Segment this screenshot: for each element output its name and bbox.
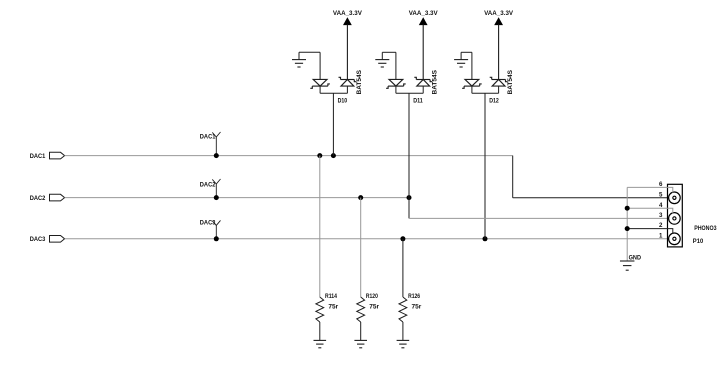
wire ground to D11 anode (horiz) <box>382 51 396 53</box>
wire ground stub D10 <box>298 52 300 59</box>
schottky diode D12A (to ground) <box>462 79 482 88</box>
ground symbol at D12 <box>454 60 468 67</box>
svg-text:GND: GND <box>629 254 642 261</box>
wire D11 left diode to rail <box>395 86 397 93</box>
wire D12 rail to signal <box>484 93 486 239</box>
wire net DAC3 <box>65 238 675 240</box>
resistor R120 75r <box>357 297 365 322</box>
ground symbol under R126 <box>397 340 410 347</box>
testpoint DAC3 stem <box>215 225 217 238</box>
port DAC2 <box>50 194 65 201</box>
phono jack circle 1 <box>669 192 681 204</box>
svg-text:BAT54S: BAT54S <box>432 69 439 94</box>
wire DAC1 jog down <box>512 156 514 198</box>
svg-text:75r: 75r <box>328 303 338 310</box>
connector P10 body <box>668 184 683 247</box>
svg-text:75r: 75r <box>412 303 422 310</box>
svg-text:DAC3: DAC3 <box>200 220 216 227</box>
svg-text:3: 3 <box>659 212 663 219</box>
junction DAC2 testpoint <box>214 195 219 200</box>
svg-text:R114: R114 <box>325 293 337 300</box>
wire signal to R126 <box>402 239 404 297</box>
wire VAA to D11 cathode <box>422 25 424 80</box>
wire ground to D10 anode (horiz) <box>299 51 320 53</box>
wire DAC2 to P10 pin3 <box>409 217 674 219</box>
wire D11 right diode to rail <box>422 86 424 93</box>
wire ground stub D12 <box>460 52 462 59</box>
resistor R114 75r <box>316 297 324 322</box>
junction DAC1 testpoint <box>214 153 219 158</box>
svg-text:VAA_3.3V: VAA_3.3V <box>409 10 439 17</box>
svg-text:D10: D10 <box>338 98 348 105</box>
wire VAA to D10 cathode <box>346 25 348 80</box>
svg-text:DAC1: DAC1 <box>30 153 46 160</box>
wire pin4 from ground bus <box>627 207 667 209</box>
wire DAC2 jog down <box>408 198 410 219</box>
svg-text:R120: R120 <box>366 293 378 300</box>
wire ground to D10 left diode top <box>319 52 321 79</box>
junction DAC1 diode clamp tap <box>331 153 336 158</box>
wire D12 right diode to rail <box>498 86 500 93</box>
wire D12 common rail <box>472 92 499 94</box>
wire D10 right diode to rail <box>346 86 348 93</box>
svg-text:BAT54S: BAT54S <box>356 69 363 94</box>
svg-text:D11: D11 <box>413 98 423 105</box>
wire D10 left diode to rail <box>319 86 321 93</box>
schottky diode D10A (to ground) <box>310 79 330 88</box>
junction DAC3 diode clamp tap <box>483 236 488 241</box>
svg-text:DAC3: DAC3 <box>30 236 46 243</box>
testpoint DAC3 arms <box>212 220 220 225</box>
svg-text:75r: 75r <box>369 303 379 310</box>
schottky diode D10B (to VAA) <box>339 77 357 86</box>
junction DAC3 resistor tap <box>400 236 405 241</box>
svg-text:DAC2: DAC2 <box>200 182 216 189</box>
wire R114 to ground <box>319 322 321 340</box>
svg-text:5: 5 <box>659 191 663 198</box>
wire D12 left diode to rail <box>471 86 473 93</box>
svg-text:P10: P10 <box>693 238 704 245</box>
junction DAC2 resistor tap <box>358 195 363 200</box>
svg-text:DAC2: DAC2 <box>30 195 46 202</box>
power arrow VAA_3.3V D10 <box>343 17 352 25</box>
svg-text:VAA_3.3V: VAA_3.3V <box>484 10 514 17</box>
svg-text:1: 1 <box>659 232 663 239</box>
wire VAA to D12 cathode <box>498 25 500 80</box>
phono jack circle 3 <box>669 233 681 245</box>
testpoint DAC2 arms <box>212 179 220 184</box>
power arrow VAA_3.3V D12 <box>494 17 503 25</box>
ground symbol under R114 <box>314 340 327 347</box>
junction DAC3 testpoint <box>214 236 219 241</box>
wire ground stub D11 <box>381 52 383 59</box>
wire DAC1 to P10 pin5 <box>513 197 675 199</box>
port DAC3 <box>50 236 65 243</box>
wire ground to D11 left diode top <box>395 52 397 79</box>
junction DAC2 diode clamp tap <box>407 195 412 200</box>
wire D11 common rail <box>396 92 423 94</box>
schottky diode D12B (to VAA) <box>490 77 508 86</box>
svg-text:DAC1: DAC1 <box>200 134 216 141</box>
wire ground to D12 left diode top <box>471 52 473 79</box>
svg-text:PHONO3: PHONO3 <box>694 225 717 232</box>
port DAC1 <box>50 152 65 159</box>
svg-text:D12: D12 <box>489 98 499 105</box>
wire R126 to ground <box>402 322 404 340</box>
wire net DAC2 <box>65 197 409 199</box>
testpoint DAC2 stem <box>215 184 217 198</box>
ground symbol at D10 <box>292 60 306 67</box>
phono jack circle 2 <box>669 213 681 225</box>
svg-text:BAT54S: BAT54S <box>507 69 514 94</box>
resistor R126 75r <box>399 297 407 322</box>
wire ground to D12 anode (horiz) <box>461 51 472 53</box>
junction ground bus pin4 <box>625 206 630 211</box>
junction ground bus pin2 <box>625 226 630 231</box>
wire signal to R114 <box>319 156 321 297</box>
wire R120 to ground <box>360 322 362 340</box>
junction DAC1 resistor tap <box>317 153 322 158</box>
power arrow VAA_3.3V D11 <box>419 17 428 25</box>
svg-text:R126: R126 <box>408 293 420 300</box>
wire ground bus <box>626 187 628 261</box>
schottky diode D11A (to ground) <box>386 79 406 88</box>
schottky diode D11B (to VAA) <box>414 77 432 86</box>
wire D10 rail to signal <box>332 93 334 155</box>
wire D10 common rail <box>320 92 347 94</box>
ground symbol at P10 <box>620 261 635 270</box>
wire pin4 elbow to jack2 <box>668 208 673 213</box>
testpoint DAC1 arms <box>212 132 220 137</box>
wire net DAC1 <box>65 155 513 157</box>
wire pin2 elbow to jack3 <box>668 229 673 234</box>
wire pin6 from ground bus <box>627 186 667 188</box>
testpoint DAC1 stem <box>215 137 217 156</box>
svg-text:VAA_3.3V: VAA_3.3V <box>333 10 363 17</box>
wire pin2 from ground bus <box>627 228 667 230</box>
wire D11 rail to signal <box>408 93 410 197</box>
ground symbol under R120 <box>354 340 367 347</box>
wire pin6 elbow to jack1 <box>668 187 673 192</box>
wire signal to R120 <box>360 198 362 297</box>
ground symbol at D11 <box>375 60 389 67</box>
